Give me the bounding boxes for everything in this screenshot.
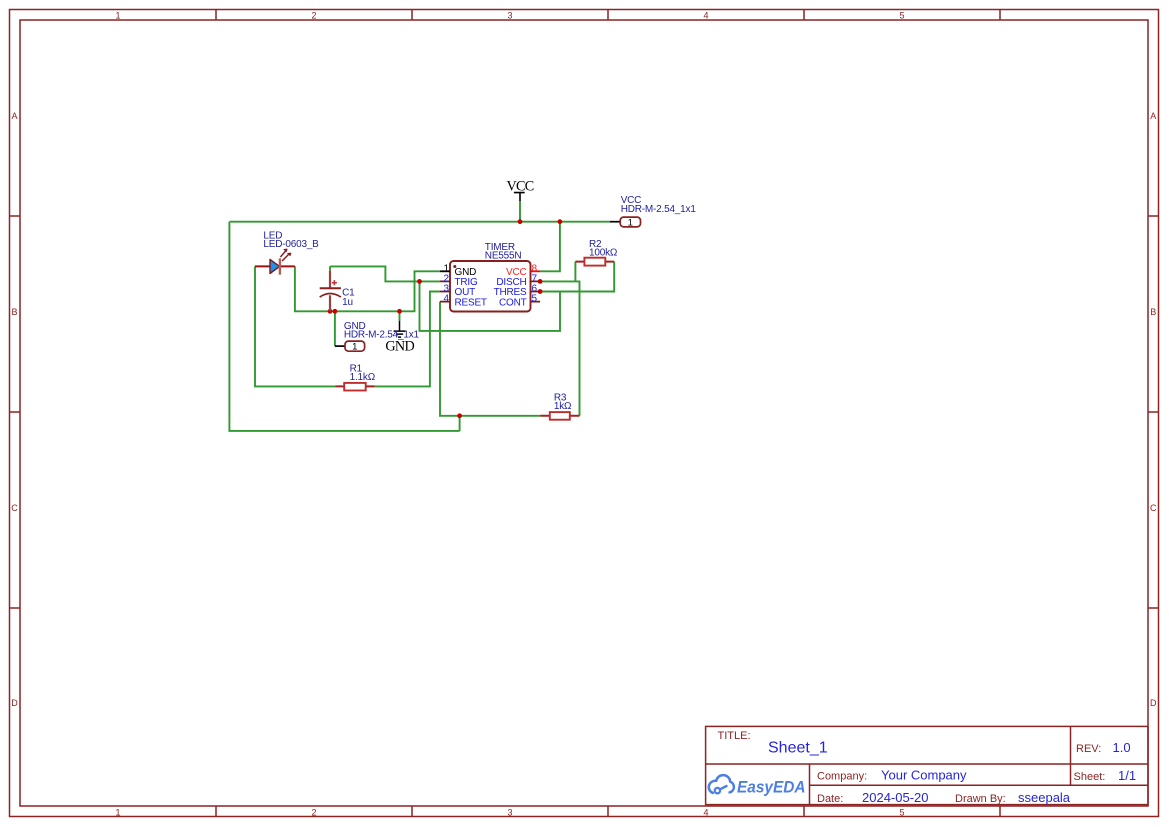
svg-text:4: 4 bbox=[703, 11, 708, 21]
svg-text:D: D bbox=[1150, 698, 1157, 708]
svg-text:C: C bbox=[11, 503, 18, 513]
svg-text:GND: GND bbox=[385, 339, 414, 355]
svg-text:4: 4 bbox=[703, 807, 708, 817]
svg-text:A: A bbox=[11, 111, 17, 121]
svg-text:B: B bbox=[1150, 307, 1156, 317]
svg-text:1.0: 1.0 bbox=[1113, 740, 1131, 755]
svg-text:3: 3 bbox=[507, 807, 512, 817]
svg-text:RESET: RESET bbox=[455, 297, 487, 308]
svg-text:LED-0603_B: LED-0603_B bbox=[263, 239, 319, 250]
svg-text:Your Company: Your Company bbox=[881, 768, 967, 783]
svg-text:1u: 1u bbox=[342, 297, 353, 308]
svg-text:2024-05-20: 2024-05-20 bbox=[862, 790, 929, 805]
svg-text:C: C bbox=[1150, 503, 1157, 513]
svg-text:CONT: CONT bbox=[499, 297, 527, 308]
svg-text:Sheet:: Sheet: bbox=[1074, 771, 1106, 783]
svg-text:1: 1 bbox=[115, 807, 120, 817]
svg-text:2: 2 bbox=[311, 807, 316, 817]
svg-text:D: D bbox=[11, 698, 18, 708]
svg-text:5: 5 bbox=[899, 11, 904, 21]
svg-text:Date:: Date: bbox=[817, 793, 843, 805]
svg-text:REV:: REV: bbox=[1076, 743, 1101, 755]
svg-text:100kΩ: 100kΩ bbox=[589, 247, 618, 258]
svg-text:3: 3 bbox=[507, 11, 512, 21]
svg-text:A: A bbox=[1150, 111, 1156, 121]
svg-text:Sheet_1: Sheet_1 bbox=[768, 740, 828, 757]
svg-text:1kΩ: 1kΩ bbox=[554, 401, 572, 412]
svg-text:2: 2 bbox=[311, 11, 316, 21]
svg-text:1.1kΩ: 1.1kΩ bbox=[350, 372, 376, 383]
svg-text:NE555N: NE555N bbox=[485, 250, 522, 261]
svg-text:5: 5 bbox=[532, 294, 538, 305]
svg-text:sseepala: sseepala bbox=[1018, 790, 1071, 805]
svg-text:EasyEDA: EasyEDA bbox=[737, 778, 806, 797]
svg-text:B: B bbox=[11, 307, 17, 317]
svg-text:5: 5 bbox=[899, 807, 904, 817]
svg-text:1/1: 1/1 bbox=[1118, 768, 1136, 783]
svg-text:HDR-M-2.54_1x1: HDR-M-2.54_1x1 bbox=[344, 330, 420, 341]
svg-text:1: 1 bbox=[628, 218, 633, 229]
svg-text:1: 1 bbox=[115, 11, 120, 21]
svg-text:TITLE:: TITLE: bbox=[718, 730, 751, 742]
svg-text:Drawn By:: Drawn By: bbox=[955, 793, 1006, 805]
svg-text:HDR-M-2.54_1x1: HDR-M-2.54_1x1 bbox=[621, 204, 697, 215]
svg-text:1: 1 bbox=[352, 342, 357, 353]
svg-text:4: 4 bbox=[443, 294, 449, 305]
svg-text:Company:: Company: bbox=[817, 771, 867, 783]
